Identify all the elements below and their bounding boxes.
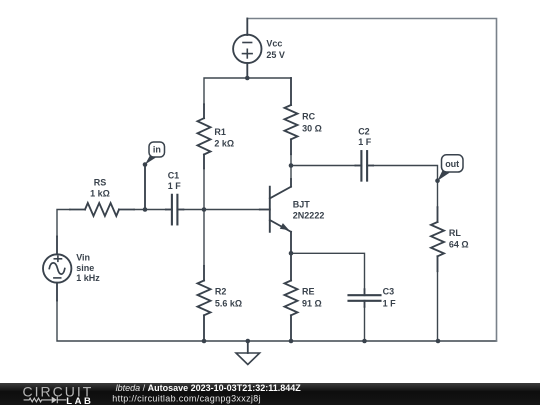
svg-text:1 F: 1 F [383, 298, 397, 308]
svg-text:R2: R2 [215, 287, 227, 297]
svg-text:RE: RE [302, 287, 315, 297]
svg-text:30 Ω: 30 Ω [302, 124, 322, 134]
svg-text:RC: RC [302, 112, 315, 122]
svg-text:1 kΩ: 1 kΩ [90, 188, 110, 198]
svg-text:Vin: Vin [76, 252, 90, 262]
svg-text:lbteda / Autosave 2023-10-03T2: lbteda / Autosave 2023-10-03T21:32:11.84… [116, 383, 302, 393]
svg-text:RS: RS [94, 177, 107, 187]
svg-text:64 Ω: 64 Ω [449, 240, 469, 250]
svg-text:1 kHz: 1 kHz [76, 273, 100, 283]
svg-text:in: in [153, 145, 161, 155]
svg-text:BJT: BJT [293, 200, 311, 210]
svg-text:1 F: 1 F [168, 181, 182, 191]
svg-text:C3: C3 [383, 287, 395, 297]
svg-text:5.6 kΩ: 5.6 kΩ [215, 298, 242, 308]
svg-text:C2: C2 [358, 127, 370, 137]
svg-text:sine: sine [76, 263, 94, 273]
svg-text:R1: R1 [214, 127, 226, 137]
svg-text:Vcc: Vcc [266, 39, 282, 49]
svg-text:C1: C1 [168, 170, 180, 180]
svg-text:http://circuitlab.com/cagnpg3x: http://circuitlab.com/cagnpg3xxzj8j [112, 393, 261, 403]
svg-text:LAB: LAB [66, 396, 93, 405]
svg-text:2N2222: 2N2222 [293, 210, 325, 220]
svg-text:1 F: 1 F [358, 137, 372, 147]
svg-text:out: out [445, 159, 459, 169]
svg-text:RL: RL [449, 228, 461, 238]
svg-text:2 kΩ: 2 kΩ [214, 138, 234, 148]
svg-text:25 V: 25 V [266, 50, 285, 60]
svg-text:91 Ω: 91 Ω [302, 298, 322, 308]
